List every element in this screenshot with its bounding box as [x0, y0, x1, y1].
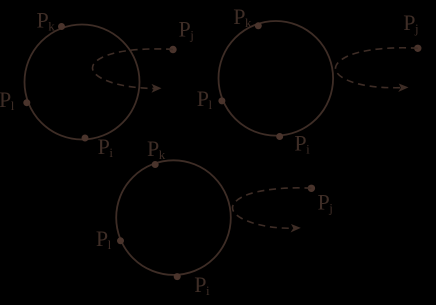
node Pi dot (circle 2) [276, 133, 283, 140]
svg-text:Pl: Pl [0, 87, 15, 113]
svg-text:Pi: Pi [294, 130, 310, 156]
arrowhead (circle 3) [291, 224, 301, 233]
svg-text:Pj: Pj [179, 16, 194, 42]
svg-text:Pk: Pk [147, 136, 166, 162]
svg-text:Pj: Pj [318, 190, 333, 216]
dashed hook arrow (circle 1) [92, 49, 173, 89]
circle 3 (bottom cycle) [116, 160, 231, 275]
node Pk dot (circle 1) [58, 23, 65, 30]
circle 2 (top-right cycle) [218, 21, 333, 136]
node Pj dot (circle 3) [308, 185, 315, 192]
dashed hook arrow (circle 3) [232, 188, 311, 228]
svg-text:Pj: Pj [403, 10, 418, 36]
svg-text:Pk: Pk [37, 8, 56, 34]
arrowhead (circle 1) [152, 84, 162, 93]
svg-text:Pi: Pi [194, 272, 210, 298]
node Pk dot (circle 2) [255, 22, 262, 29]
svg-text:Pi: Pi [98, 134, 114, 160]
svg-text:Pl: Pl [197, 86, 213, 112]
node Pl dot (circle 1) [23, 99, 30, 106]
node Pl dot (circle 3) [117, 237, 124, 244]
node Pj dot (circle 2) [414, 45, 421, 52]
node Pk dot (circle 3) [152, 161, 159, 168]
dashed hook arrow (circle 2) [335, 48, 417, 88]
svg-text:Pl: Pl [96, 226, 112, 252]
node Pi dot (circle 1) [82, 135, 89, 142]
node Pj dot (circle 1) [169, 46, 176, 53]
node Pi dot (circle 3) [174, 273, 181, 280]
node Pl dot (circle 2) [218, 97, 225, 104]
arrowhead (circle 2) [398, 84, 408, 93]
svg-text:Pk: Pk [233, 4, 252, 30]
circle 1 (top-left cycle) [25, 25, 140, 140]
